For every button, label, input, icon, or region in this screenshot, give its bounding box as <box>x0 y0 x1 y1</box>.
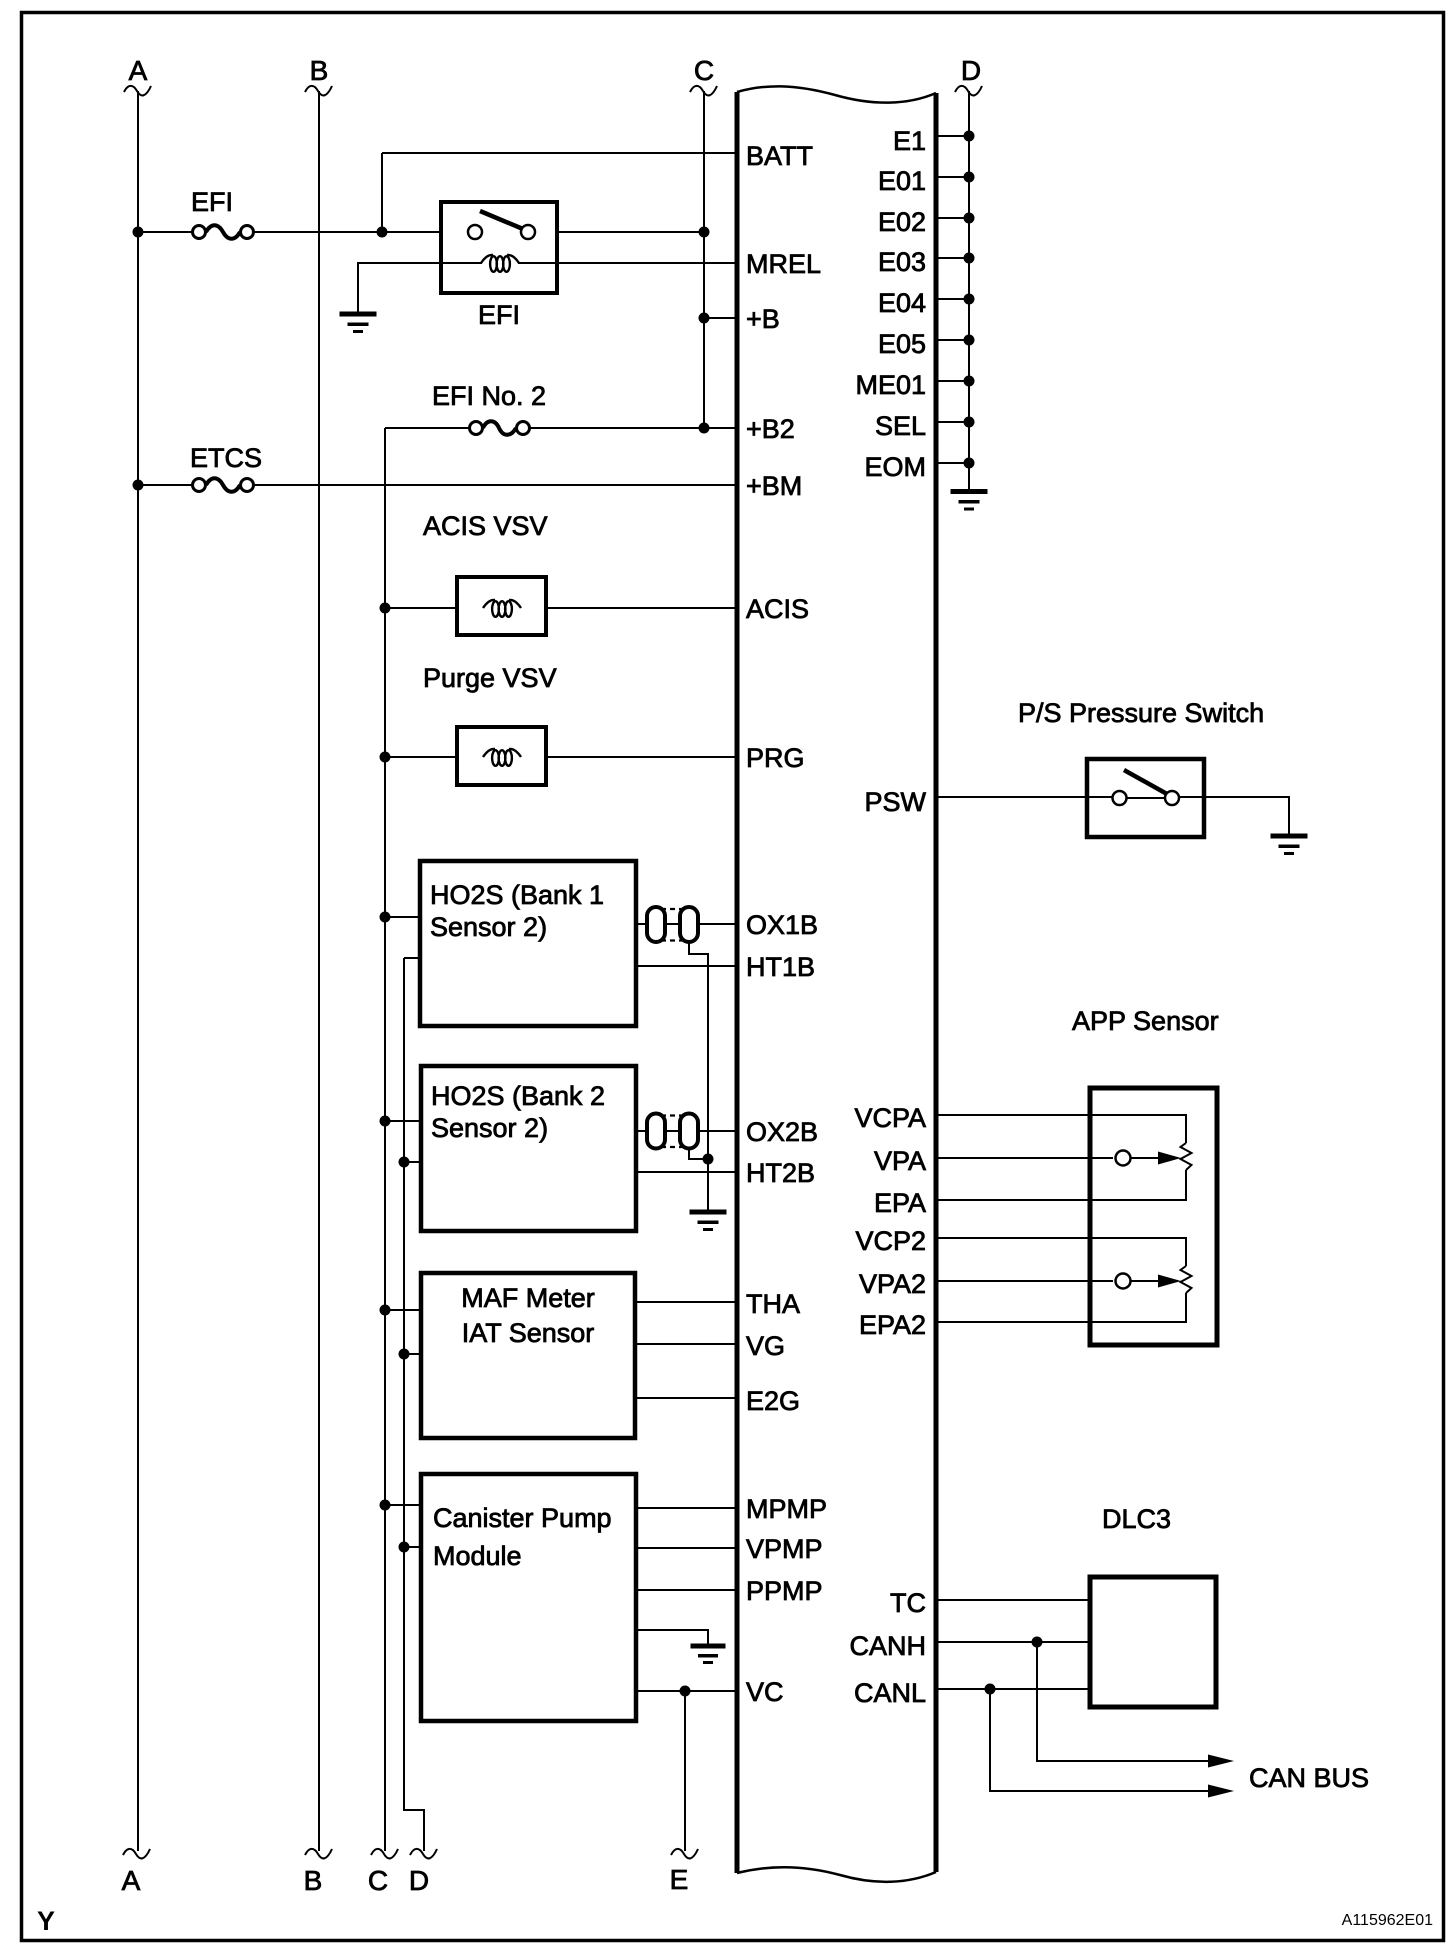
fuse EFI No. 2 <box>470 421 530 435</box>
svg-text:P/S Pressure Switch: P/S Pressure Switch <box>1018 698 1264 728</box>
svg-text:ME01: ME01 <box>855 370 926 400</box>
wire VPMP <box>636 1547 737 1549</box>
pin stub E05 <box>936 339 969 341</box>
svg-text:E03: E03 <box>878 247 926 277</box>
junction dot rail C/MAF <box>380 1305 391 1316</box>
svg-text:DLC3: DLC3 <box>1102 1504 1171 1534</box>
connector dashed outline (bank2) <box>661 1114 684 1116</box>
junction dot A/EFI fuse <box>133 227 144 238</box>
junction dot E02 <box>964 213 975 224</box>
junction dot rail C/HO2S2 <box>380 1116 391 1127</box>
wire rail C to Purge VSV <box>385 756 483 758</box>
svg-text:B: B <box>310 55 329 86</box>
svg-text:C: C <box>368 1865 388 1896</box>
wire rail C to EFI No.2 fuse <box>385 427 470 429</box>
svg-text:MAF Meter: MAF Meter <box>461 1283 595 1313</box>
wire BATT vertical riser <box>381 153 383 232</box>
relay EFI box <box>441 202 557 293</box>
wire relay switch to rail C <box>536 231 704 233</box>
svg-text:Canister Pump: Canister Pump <box>433 1503 612 1533</box>
svg-text:Sensor 2): Sensor 2) <box>430 912 547 942</box>
connector pin obround right (bank1) <box>680 907 698 942</box>
ECM connector right edge <box>934 93 939 1872</box>
solenoid Purge VSV coil <box>483 749 521 766</box>
solenoid ACIS VSV coil <box>483 600 521 617</box>
node D (bottom) break symbol <box>410 1849 437 1859</box>
junction dot rail C/CPM <box>380 1500 391 1511</box>
pin stub E03 <box>936 257 969 259</box>
junction dot BATT riser <box>377 227 388 238</box>
svg-text:EFI: EFI <box>191 187 233 217</box>
wire ETCS fuse to ECM (+BM) <box>253 484 737 486</box>
wire VCPA to potentiometer 1 top <box>936 1115 1186 1143</box>
svg-text:C: C <box>694 55 714 86</box>
wire OX2B connector segments <box>636 1130 649 1132</box>
wire rail D upper segment (ground bus) <box>968 91 970 492</box>
sensor HO2S (Bank 2 Sensor 2) box <box>421 1066 636 1231</box>
wire rail C upper segment <box>703 91 705 428</box>
svg-text:A: A <box>129 55 148 86</box>
svg-text:BATT: BATT <box>746 141 813 171</box>
svg-text:E01: E01 <box>878 166 926 196</box>
node C top break symbol <box>690 86 717 96</box>
svg-text:PRG: PRG <box>746 743 805 773</box>
solenoid ACIS VSV box <box>457 577 546 635</box>
junction dot rail C/+B2 <box>699 423 710 434</box>
svg-text:ACIS: ACIS <box>746 594 809 624</box>
wire sensor1 shield drop to ground bus <box>689 941 708 1159</box>
wire rail D to MAF meter <box>404 1353 421 1355</box>
svg-text:D: D <box>409 1865 429 1896</box>
svg-text:CAN BUS: CAN BUS <box>1249 1763 1369 1793</box>
svg-text:D: D <box>961 55 981 86</box>
svg-text:VCPA: VCPA <box>854 1103 926 1133</box>
wire rail C to +B <box>704 317 737 319</box>
sensor MAF Meter IAT Sensor box <box>421 1273 635 1438</box>
node A top break symbol <box>124 86 151 96</box>
svg-text:E: E <box>670 1864 689 1895</box>
fuse ETCS <box>193 478 254 492</box>
junction dot A/ETCS fuse <box>133 480 144 491</box>
ECM connector top torn edge <box>737 86 936 102</box>
node E break symbol <box>671 1849 698 1859</box>
solenoid Purge VSV box <box>457 727 546 785</box>
fuse EFI <box>193 225 254 239</box>
wire E2G <box>635 1397 737 1399</box>
ground (ECM E-pins bus) <box>951 489 988 511</box>
wire rail D to canister pump module <box>404 1546 421 1548</box>
wire potentiometer 2 bottom to EPA2 <box>936 1293 1186 1322</box>
wire EFI No.2 fuse to ECM (+B2) <box>529 427 737 429</box>
svg-text:Module: Module <box>433 1541 522 1571</box>
wire VG <box>635 1343 737 1345</box>
wire rail D lower segment <box>404 958 424 1851</box>
svg-text:SEL: SEL <box>875 411 926 441</box>
arrow CAN bus lower <box>1208 1785 1234 1798</box>
node D top break symbol <box>955 86 982 96</box>
wire rail C to MAF meter <box>385 1309 421 1311</box>
wire relay coil (MREL) to ECM <box>518 262 737 264</box>
pin stub E01 <box>936 176 969 178</box>
svg-text:ETCS: ETCS <box>190 443 262 473</box>
wire MPMP <box>636 1507 737 1509</box>
svg-text:Sensor 2): Sensor 2) <box>431 1113 548 1143</box>
ground (P/S pressure switch) <box>1271 834 1308 856</box>
junction dot E03 <box>964 253 975 264</box>
wire rail C to HO2S bank1 <box>385 916 421 918</box>
wiper line 2 <box>1131 1280 1161 1282</box>
svg-text:E1: E1 <box>893 126 926 156</box>
wire PPMP <box>636 1589 737 1591</box>
svg-text:HO2S (Bank 1: HO2S (Bank 1 <box>430 880 604 910</box>
wiper contact circle 2 <box>1116 1274 1131 1289</box>
svg-text:EPA2: EPA2 <box>859 1310 926 1340</box>
arrow CAN bus upper <box>1208 1755 1234 1768</box>
svg-text:VCP2: VCP2 <box>855 1226 926 1256</box>
pin stub ME01 <box>936 380 969 382</box>
svg-text:A115962E01: A115962E01 <box>1342 1912 1433 1929</box>
junction dot sensor ground bus <box>703 1154 714 1165</box>
svg-text:E05: E05 <box>878 329 926 359</box>
wiper arrow 2 <box>1158 1275 1181 1288</box>
wire rail B <box>318 91 320 1851</box>
svg-text:PPMP: PPMP <box>746 1576 823 1606</box>
pin stub E02 <box>936 217 969 219</box>
connector pin obround left (bank2) <box>647 1114 665 1149</box>
junction dot rail C/EFI switch <box>699 227 710 238</box>
wire CANL to DLC3 <box>936 1688 1090 1690</box>
node B top break symbol <box>305 86 332 96</box>
svg-text:VPMP: VPMP <box>746 1534 823 1564</box>
svg-text:+B: +B <box>746 304 780 334</box>
junction dot E1 <box>964 131 975 142</box>
wire A to EFI fuse <box>138 231 193 233</box>
switch P/S blade <box>1124 770 1167 794</box>
node C (bottom) break symbol <box>371 1849 398 1859</box>
svg-text:+B2: +B2 <box>746 414 795 444</box>
module Canister Pump Module box <box>421 1474 636 1721</box>
switch P/S box <box>1087 759 1204 837</box>
junction dot rail C/ACIS <box>380 603 391 614</box>
pin stub E1 <box>936 135 969 137</box>
wire node E vertical (VC to break) <box>684 1691 686 1851</box>
relay EFI switch contact circles <box>468 225 482 239</box>
svg-text:IAT Sensor: IAT Sensor <box>462 1318 595 1348</box>
svg-text:Purge VSV: Purge VSV <box>423 663 557 693</box>
svg-text:MPMP: MPMP <box>746 1494 827 1524</box>
svg-text:EOM: EOM <box>864 452 926 482</box>
wiper arrow 1 <box>1158 1152 1181 1165</box>
junction dot rail D/HO2S2 <box>399 1157 410 1168</box>
junction dot VC/E <box>680 1686 691 1697</box>
svg-text:B: B <box>304 1865 323 1896</box>
wire HO2S bank1 to rail D <box>404 957 421 959</box>
svg-text:EFI No. 2: EFI No. 2 <box>432 381 546 411</box>
svg-text:E2G: E2G <box>746 1386 800 1416</box>
wire BATT horizontal <box>382 152 737 154</box>
ground (HO2S sensors) <box>690 1210 727 1232</box>
wiper line 1 <box>1131 1157 1161 1159</box>
svg-text:CANL: CANL <box>854 1678 926 1708</box>
wire CANH branch to CAN bus <box>1037 1642 1212 1761</box>
svg-text:VPA: VPA <box>874 1146 926 1176</box>
wire ACIS VSV to ECM (ACIS) <box>519 607 737 609</box>
ground (canister pump module) <box>691 1644 726 1665</box>
svg-text:Y: Y <box>37 1906 55 1936</box>
pin stub EOM <box>936 462 969 464</box>
svg-text:A: A <box>122 1865 141 1896</box>
switch P/S contact circles <box>1113 791 1127 805</box>
wire EFI fuse to relay <box>253 231 468 233</box>
connector dashed outline (bank1) <box>661 908 684 910</box>
wire between switch contacts <box>1127 797 1165 799</box>
wire CPM case ground <box>636 1630 708 1646</box>
connector pin obround left (bank1) <box>647 907 665 942</box>
svg-text:+BM: +BM <box>746 471 802 501</box>
wire OX1B connector segments <box>636 923 649 925</box>
junction dot CANH branch <box>1032 1637 1043 1648</box>
wire rail C to ACIS VSV <box>385 607 483 609</box>
ECM connector bottom torn edge <box>737 1867 936 1882</box>
svg-text:ACIS VSV: ACIS VSV <box>423 511 548 541</box>
wire rail C to canister pump module <box>385 1504 421 1506</box>
wire Purge VSV to ECM (PRG) <box>519 756 737 758</box>
junction dot CANL branch <box>985 1684 996 1695</box>
wire CANH to DLC3 <box>936 1641 1090 1643</box>
wire sensor2 shield jog to ground bus <box>689 1148 708 1159</box>
svg-text:HO2S (Bank 2: HO2S (Bank 2 <box>431 1081 605 1111</box>
svg-text:MREL: MREL <box>746 249 821 279</box>
wire VPA wiper <box>936 1157 1113 1159</box>
junction dot rail C/HO2S1 <box>380 912 391 923</box>
wire TC to DLC3 <box>936 1599 1090 1601</box>
ground (EFI relay coil) <box>340 312 377 334</box>
sensor APP box <box>1090 1088 1217 1345</box>
resistor potentiometer 1 element <box>1181 1143 1192 1170</box>
junction dot rail D/CPM <box>399 1542 410 1553</box>
wire rail C to HO2S bank2 <box>385 1120 421 1122</box>
junction dot SEL <box>964 417 975 428</box>
node B (bottom) break symbol <box>305 1849 332 1859</box>
svg-text:OX1B: OX1B <box>746 910 818 940</box>
node A (bottom) break symbol <box>123 1849 150 1859</box>
wire ground bus drop to ground <box>707 1159 709 1212</box>
sensor HO2S (Bank 1 Sensor 2) box <box>420 861 636 1026</box>
svg-text:VC: VC <box>746 1677 784 1707</box>
svg-text:E02: E02 <box>878 207 926 237</box>
junction dot rail C/PRG <box>380 752 391 763</box>
wiper contact circle 1 <box>1116 1151 1131 1166</box>
junction dot rail D/MAF <box>399 1349 410 1360</box>
svg-text:VG: VG <box>746 1331 785 1361</box>
pin stub E04 <box>936 298 969 300</box>
wire rail D to HO2S bank2 <box>404 1161 421 1163</box>
svg-text:CANH: CANH <box>849 1631 926 1661</box>
svg-text:E04: E04 <box>878 288 926 318</box>
wire potentiometer 1 bottom to EPA <box>936 1170 1186 1200</box>
svg-text:THA: THA <box>746 1289 800 1319</box>
wire rail A <box>137 91 139 1851</box>
svg-text:APP Sensor: APP Sensor <box>1072 1006 1219 1036</box>
relay EFI switch blade <box>480 211 523 229</box>
wire THA <box>635 1301 737 1303</box>
resistor potentiometer 2 element <box>1181 1266 1192 1293</box>
wire PSW to switch <box>936 796 1113 798</box>
svg-text:VPA2: VPA2 <box>859 1269 926 1299</box>
wire VC <box>636 1690 737 1692</box>
wire rail C lower segment <box>384 428 386 1851</box>
relay EFI coil <box>481 255 519 272</box>
junction dot rail C/+B <box>699 313 710 324</box>
junction dot E04 <box>964 294 975 305</box>
svg-text:HT2B: HT2B <box>746 1158 815 1188</box>
wire VPA2 wiper <box>936 1280 1113 1282</box>
wire relay coil left to ground <box>358 263 482 314</box>
ECM connector left edge <box>735 92 740 1873</box>
junction dot EOM <box>964 458 975 469</box>
svg-text:EPA: EPA <box>874 1188 926 1218</box>
connector pin obround right (bank2) <box>680 1114 698 1149</box>
wire HT2B <box>636 1171 737 1173</box>
junction dot ME01 <box>964 376 975 387</box>
svg-text:EFI: EFI <box>478 300 520 330</box>
wire VCP2 to potentiometer 2 top <box>936 1238 1186 1266</box>
pin stub SEL <box>936 421 969 423</box>
svg-text:PSW: PSW <box>864 787 926 817</box>
wire HT1B <box>636 965 737 967</box>
svg-text:HT1B: HT1B <box>746 952 815 982</box>
wire CANL branch to CAN bus <box>990 1689 1212 1791</box>
svg-text:TC: TC <box>890 1588 926 1618</box>
wire switch to ground drop <box>1179 797 1289 836</box>
svg-text:OX2B: OX2B <box>746 1117 818 1147</box>
wire A to ETCS fuse <box>138 484 193 486</box>
junction dot E05 <box>964 335 975 346</box>
junction dot E01 <box>964 172 975 183</box>
connector DLC3 box <box>1090 1577 1216 1707</box>
